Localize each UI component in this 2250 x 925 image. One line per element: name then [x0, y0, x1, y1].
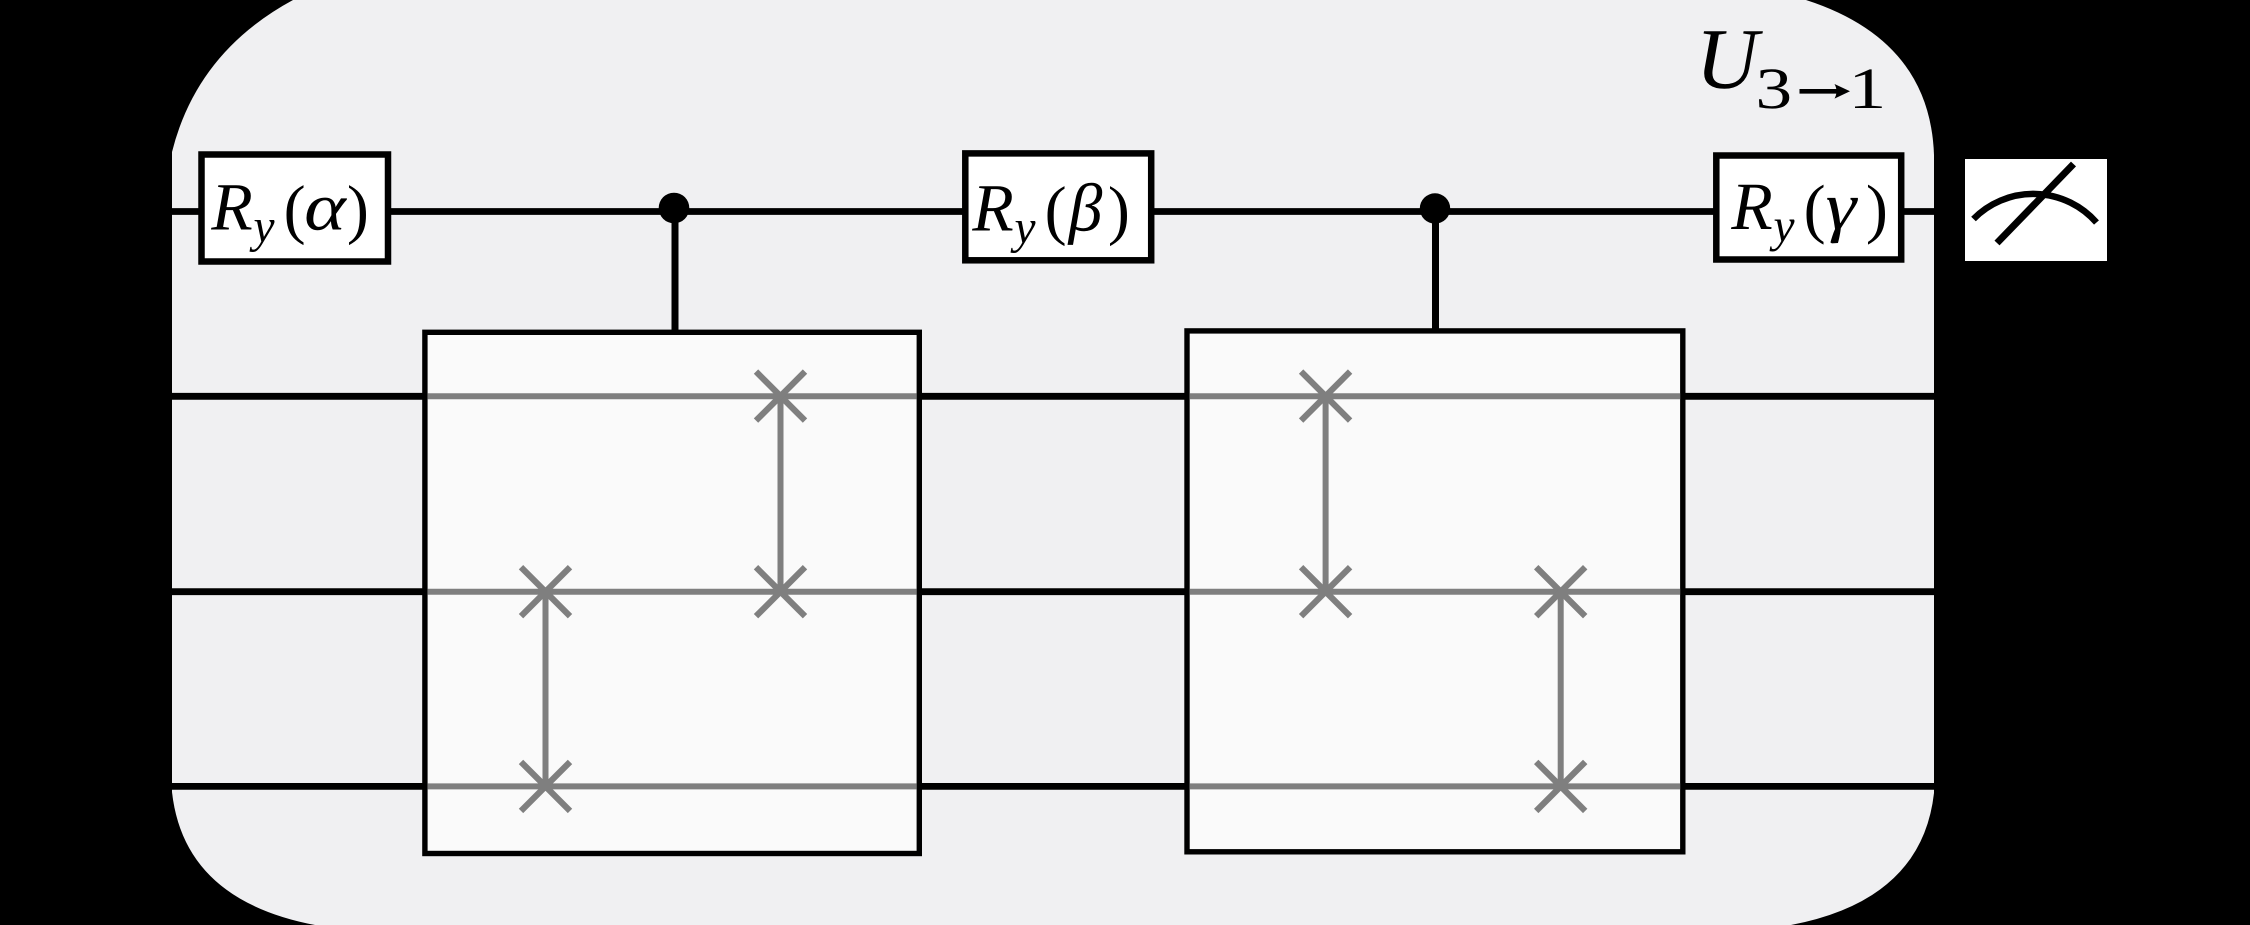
- swap X box1 q3 left: [521, 567, 570, 616]
- Ry(gamma) glyph R: [1731, 185, 1772, 229]
- label subscript 1: [1855, 69, 1882, 108]
- Ry(alpha) glyph alpha: [307, 198, 347, 231]
- cswap box 2: [1187, 331, 1683, 852]
- measurement meter box: [1965, 159, 2107, 261]
- Ry(gamma) open paren: [1807, 185, 1824, 245]
- gate Ry(beta) box: [965, 153, 1151, 260]
- wire q2: [171, 393, 1934, 400]
- swap2 connector q2-q3: [1323, 396, 1329, 591]
- gate Ry(alpha) box: [202, 155, 389, 262]
- Ry(gamma) close paren: [1868, 185, 1885, 245]
- Ry(alpha) close paren: [349, 185, 366, 245]
- control dot 1: [659, 193, 690, 224]
- wire q1: [171, 208, 1934, 215]
- control dot 2: [1420, 193, 1450, 223]
- swap X box1 q2: [756, 372, 805, 421]
- meter arc: [1974, 194, 2097, 223]
- box2 gray wire q3: [1190, 589, 1680, 595]
- Ry(beta) close paren: [1110, 186, 1127, 246]
- box1 gray wire q3: [428, 589, 917, 595]
- Ry(beta) glyph beta: [1068, 183, 1103, 245]
- swap1 connector q2-q3: [778, 396, 784, 591]
- box2 gray wire q2: [1190, 393, 1680, 399]
- Ry(alpha) glyph R: [211, 185, 252, 229]
- control line 2: [1432, 208, 1439, 338]
- Ry(beta) open paren: [1048, 186, 1065, 246]
- Ry(beta) glyph R: [972, 186, 1013, 230]
- swap X box2 q2: [1301, 372, 1350, 421]
- swap X box2 q3 right: [1536, 567, 1585, 616]
- swap2 connector q3-q4: [1558, 592, 1564, 787]
- label subscript arrow head: [1835, 84, 1851, 99]
- box2 gray wire q4: [1190, 783, 1680, 789]
- circuit panel U_3to1: [172, 0, 1934, 925]
- Ry(alpha) subscript y: [250, 220, 275, 252]
- Ry(alpha) open paren: [287, 185, 304, 245]
- Ry(gamma) subscript y: [1770, 220, 1795, 252]
- swap X box2 q3 left: [1301, 567, 1350, 616]
- swap X box1 q4: [521, 762, 570, 811]
- wire q4: [171, 783, 1934, 790]
- label subscript arrow shaft: [1800, 89, 1841, 94]
- Ry(gamma) glyph gamma: [1827, 198, 1858, 244]
- meter needle: [1997, 164, 2074, 243]
- swap X box2 q4: [1536, 762, 1585, 811]
- wire q3: [171, 588, 1934, 595]
- cswap box 1: [425, 332, 919, 853]
- Ry(beta) subscript y: [1011, 221, 1036, 253]
- control line 1: [672, 208, 679, 338]
- box1 gray wire q4: [428, 783, 917, 789]
- label subscript 3: [1759, 69, 1789, 108]
- swap X box1 q3 right: [756, 567, 805, 616]
- box1 gray wire q2: [428, 393, 917, 399]
- swap1 connector q3-q4: [543, 592, 549, 787]
- label U: [1704, 31, 1763, 89]
- gate Ry(gamma) box: [1716, 156, 1901, 260]
